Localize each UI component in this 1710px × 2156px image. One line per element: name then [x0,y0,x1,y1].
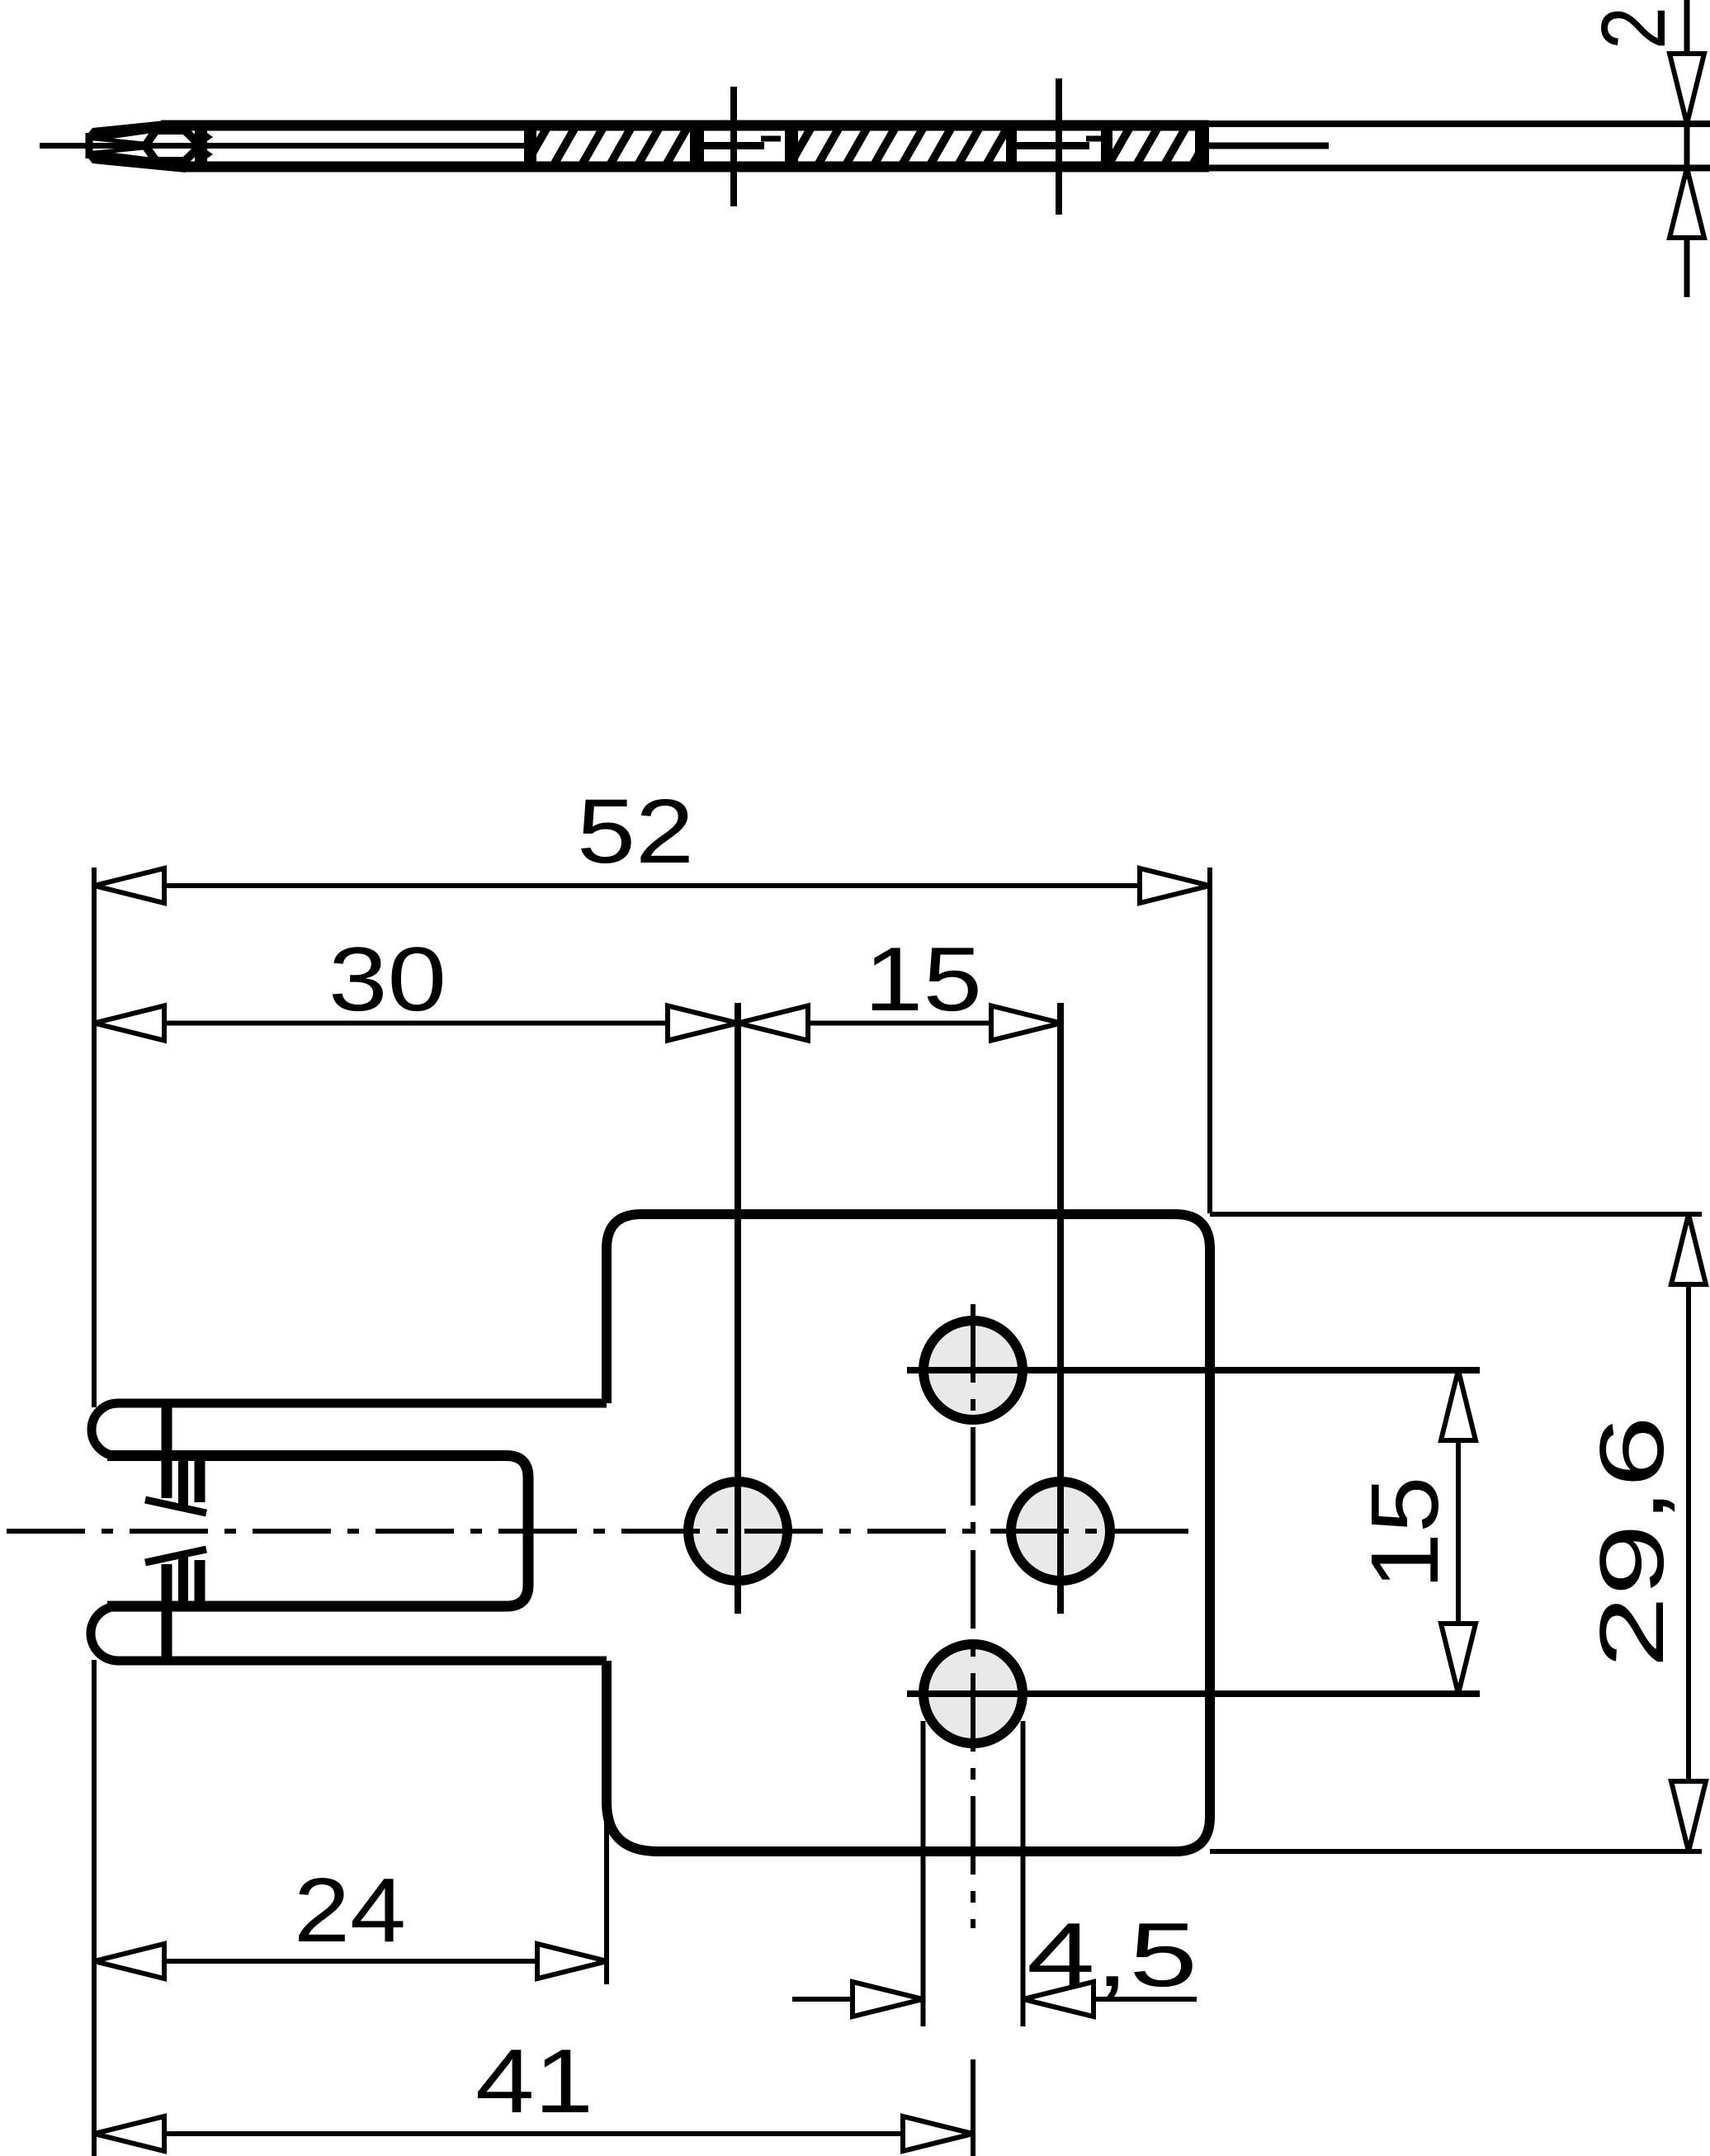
blade tip lower taper [86,150,186,173]
hole top (fill) [923,1321,1023,1420]
section bar 2 [690,121,704,172]
dimension 41 [94,2031,973,2151]
vertical line through left hole [735,1003,741,1614]
wire: thin bottom edge of right blade section [1209,165,1710,172]
left extension line upper [92,868,97,1407]
section bar 3 [785,121,798,172]
vertical line through right hole [1057,1003,1064,1614]
extension top edge right (29.6) [1210,1212,1702,1217]
svg-text:15: 15 [864,929,982,1030]
plate left edge lower segment [602,1661,612,1805]
wire: bottom outer edge of blade [186,162,1209,173]
svg-text:15: 15 [1351,1477,1458,1590]
node: centerline tick 2 on blade [1056,78,1062,215]
extension lines [94,868,1702,2156]
hatch block 2 [791,129,1007,163]
hatch block 3 [1109,129,1213,163]
svg-text:24: 24 [294,1860,406,1961]
arm top edge [118,1399,607,1408]
extension x=735 (24) [604,1805,609,1984]
vertical axis through top/bottom holes (dash-dot) [971,1304,975,1928]
dimension 4,5 [792,1904,1197,2017]
hole bottom (fill) [923,1644,1023,1743]
lower clamp bars [178,1555,188,1606]
plate outline [118,1214,1210,1851]
dimension 24 [94,1860,607,1979]
horizontal center axis (dash-dot) [7,1529,1188,1534]
svg-text:30: 30 [328,929,446,1030]
dimension 2 (blade thickness) [1583,0,1704,297]
wire: dim line [1684,0,1690,297]
svg-text:4,5: 4,5 [1027,1904,1197,2006]
right extension line (52) [1207,868,1212,1213]
blade tip flat end [86,133,93,158]
section bar 6 [1195,121,1209,172]
section bar 5 [1101,121,1112,172]
section bar 4 [1006,121,1017,172]
extension 4,5 left [921,1721,926,2026]
extension bottom edge right (29.6) [1210,1849,1702,1854]
blade tip upper taper [86,121,165,141]
hole right (fill) [1011,1482,1110,1581]
arm bottom edge [118,1657,607,1666]
extension 41 center [971,2059,975,2156]
dimension 15 top [738,929,1061,1041]
section bar 1 [524,121,536,172]
eye right chevron upper [205,131,213,143]
horizontal line through bottom hole [907,1690,1480,1697]
centerlines [7,1003,1480,1928]
section bars of blade [524,121,1209,172]
fork details [91,1403,528,1661]
needle slot outline [107,1456,528,1607]
wire: top outer edge of blade [161,121,1209,131]
needle eye (hexagonal hole) [145,130,201,161]
dimension 30 [94,929,738,1041]
eye right chevron lower [205,149,213,160]
plate square outline [607,1214,1210,1851]
svg-text:29,6: 29,6 [1581,1416,1683,1668]
wire: horizontal centerline of side view [40,143,524,149]
horizontal line through top hole [907,1367,1480,1374]
eye right solid bar [195,121,207,170]
extension 4,5 right [1021,1721,1026,2026]
hole left (fill) [688,1482,787,1581]
dimension 29,6 [1581,1214,1706,1851]
blade tip assembly [86,121,213,173]
upper clamp bars [178,1456,188,1507]
lower tab right bar [162,1564,172,1661]
wire: thin top edge of right blade section [1209,121,1710,127]
svg-text:52: 52 [577,781,694,882]
arrowhead up [1670,168,1704,239]
lower finger tab cap [91,1606,118,1661]
node: centerline tick 1 on blade [730,87,737,206]
dimension 15 vertical [1351,1370,1476,1694]
upper finger tab cap [92,1403,118,1456]
svg-text:2: 2 [1583,7,1684,50]
plate left edge upper segment [602,1246,612,1403]
dimension 52 [94,781,1210,903]
hatch block 1 [527,129,687,163]
upper tab right bar [162,1403,172,1498]
blade inner taper lines [94,139,144,144]
arrowhead down [1670,54,1704,124]
left extension line lower [92,1660,97,2156]
svg-text:41: 41 [475,2031,593,2132]
